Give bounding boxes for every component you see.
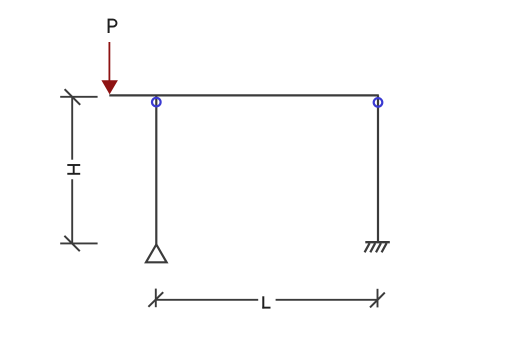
H dimension bottom tick slash — [64, 236, 79, 251]
pin (hinge) circle at right beam-column joint — [374, 98, 383, 107]
fixed support hatch 1 — [365, 243, 370, 252]
L dimension left tick vertical — [155, 289, 157, 308]
left column — [155, 95, 157, 244]
beam (top horizontal member) — [109, 94, 379, 96]
L dimension right tick slash — [370, 293, 385, 308]
load arrowhead — [101, 80, 118, 94]
fixed support ground line (right base) — [365, 241, 390, 243]
pin support triangle (left base) — [146, 245, 167, 263]
H dimension bottom extension line — [60, 242, 97, 244]
load P label — [109, 19, 117, 33]
fixed support hatch 2 — [370, 243, 375, 252]
H dimension line upper segment — [71, 97, 73, 160]
H dimension top extension line — [60, 96, 97, 98]
L dimension right tick vertical — [377, 289, 379, 308]
L dimension line left segment — [156, 299, 258, 301]
H dimension top tick slash — [65, 89, 81, 105]
load arrow shaft — [108, 42, 110, 81]
fixed support hatch 4 — [382, 243, 387, 252]
L dimension left tick slash — [148, 292, 163, 307]
L dimension label — [262, 296, 270, 308]
H dimension label (rotated) — [67, 165, 80, 174]
fixed support hatch 3 — [376, 243, 381, 252]
right column — [377, 95, 379, 242]
H dimension line lower segment — [71, 179, 73, 243]
pin (hinge) circle at left beam-column joint — [152, 98, 161, 107]
L dimension line right segment — [276, 299, 378, 301]
